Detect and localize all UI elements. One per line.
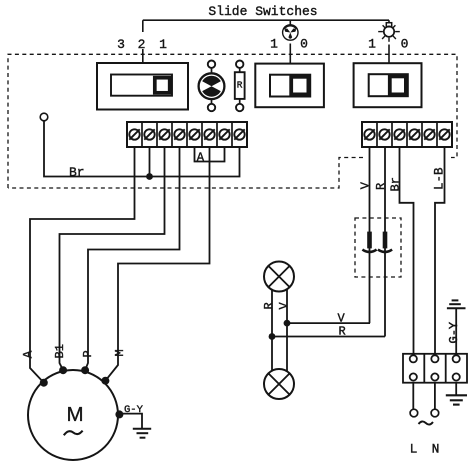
svg-text:P: P: [81, 350, 95, 357]
svg-text:R: R: [237, 80, 243, 91]
svg-text:G-Y: G-Y: [124, 404, 144, 416]
svg-text:Br: Br: [389, 177, 403, 191]
svg-text:G-Y: G-Y: [447, 322, 461, 344]
svg-text:Slide Switches: Slide Switches: [208, 4, 317, 19]
svg-text:V: V: [359, 181, 373, 189]
svg-text:A: A: [197, 151, 205, 165]
svg-text:Br: Br: [69, 165, 85, 180]
svg-text:1: 1: [368, 37, 376, 52]
svg-text:L-B: L-B: [433, 167, 447, 190]
svg-text:3: 3: [117, 37, 125, 52]
svg-text:1: 1: [270, 37, 278, 52]
svg-text:N: N: [432, 442, 440, 457]
svg-text:B1: B1: [53, 344, 67, 358]
svg-text:1: 1: [159, 37, 167, 52]
svg-text:0: 0: [300, 37, 308, 52]
svg-text:R: R: [339, 325, 346, 339]
svg-text:0: 0: [401, 37, 409, 52]
svg-text:L: L: [410, 442, 418, 457]
svg-text:A: A: [21, 350, 35, 358]
svg-text:M: M: [113, 349, 127, 356]
svg-text:V: V: [338, 312, 346, 326]
svg-text:R: R: [374, 183, 388, 190]
svg-text:R: R: [262, 302, 276, 309]
svg-text:V: V: [277, 302, 291, 310]
svg-text:M: M: [66, 403, 83, 426]
svg-text:2: 2: [138, 37, 146, 52]
